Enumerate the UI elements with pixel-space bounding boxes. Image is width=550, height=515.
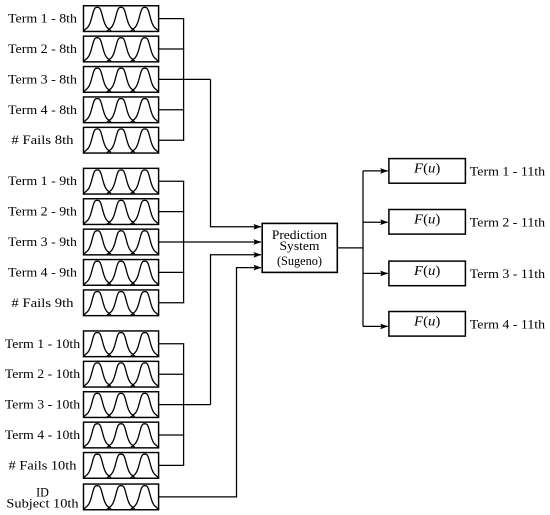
svg-text:System: System — [280, 239, 320, 253]
svg-text:Term 4 - 9th: Term 4 - 9th — [8, 265, 78, 279]
svg-text:# Fails 9th: # Fails 9th — [11, 296, 74, 310]
svg-text:Term 4 - 8th: Term 4 - 8th — [8, 103, 78, 117]
svg-text:Subject 10th: Subject 10th — [6, 496, 79, 510]
svg-text:Term 1 - 9th: Term 1 - 9th — [8, 174, 78, 188]
svg-text:Term 4 - 10th: Term 4 - 10th — [5, 428, 81, 442]
svg-text:F(u): F(u) — [413, 263, 440, 278]
svg-text:Term 3 - 9th: Term 3 - 9th — [8, 235, 78, 249]
svg-text:Term 2 - 11th: Term 2 - 11th — [470, 215, 546, 229]
svg-text:Term 2 - 10th: Term 2 - 10th — [5, 367, 81, 381]
svg-text:Term 1 - 10th: Term 1 - 10th — [5, 337, 81, 351]
svg-text:Term 3 - 11th: Term 3 - 11th — [470, 267, 546, 281]
svg-text:Term 3 - 8th: Term 3 - 8th — [8, 73, 78, 87]
svg-text:# Fails 10th: # Fails 10th — [9, 458, 78, 472]
svg-text:Term 2 - 9th: Term 2 - 9th — [8, 205, 78, 219]
svg-text:Term 2 - 8th: Term 2 - 8th — [8, 42, 78, 56]
svg-text:F(u): F(u) — [413, 161, 440, 176]
svg-text:Term 4 - 11th: Term 4 - 11th — [470, 317, 546, 331]
svg-text:Term 1 - 11th: Term 1 - 11th — [470, 165, 546, 179]
svg-text:F(u): F(u) — [413, 212, 440, 227]
svg-text:Term 1 - 8th: Term 1 - 8th — [8, 12, 78, 26]
svg-text:Term 3 - 10th: Term 3 - 10th — [5, 398, 81, 412]
svg-text:F(u): F(u) — [413, 314, 440, 329]
svg-text:# Fails 8th: # Fails 8th — [11, 133, 74, 147]
svg-text:(Sugeno): (Sugeno) — [277, 254, 322, 268]
